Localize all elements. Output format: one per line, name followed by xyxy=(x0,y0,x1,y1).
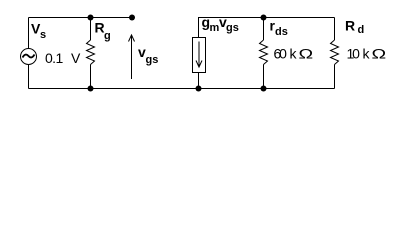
wire rds bottom lead xyxy=(263,65,265,89)
svg-text:Ω: Ω xyxy=(299,46,314,62)
wire bottom rail xyxy=(29,88,335,90)
wire Rd top lead xyxy=(334,18,336,41)
wire rds top lead xyxy=(263,18,265,41)
node dot bottom rail / dependent source xyxy=(196,86,202,92)
node dot top rail / Rg xyxy=(88,15,94,21)
voltage source V1 Vs circle xyxy=(21,49,37,65)
svg-text:s: s xyxy=(40,29,46,41)
svg-text:R: R xyxy=(345,18,355,34)
svg-text:g: g xyxy=(104,30,111,42)
wire dependent source top lead and right top rail xyxy=(199,18,335,38)
wire left vertical to source xyxy=(28,18,30,49)
svg-text:k: k xyxy=(290,46,298,62)
node dot bottom rail / Rg xyxy=(88,86,94,92)
svg-text:k: k xyxy=(363,46,371,62)
wire Rd bottom lead xyxy=(334,65,336,89)
arrow vgs voltage xyxy=(129,35,135,79)
svg-text:m: m xyxy=(210,22,220,34)
node dot bottom rail / rds xyxy=(261,86,267,92)
wire Rg bottom lead xyxy=(90,65,92,89)
svg-text:ds: ds xyxy=(275,26,288,38)
node dot open terminal end of top rail xyxy=(129,15,135,21)
resistor Rd xyxy=(331,40,339,65)
wire top rail left xyxy=(29,17,133,19)
svg-text:Ω: Ω xyxy=(372,46,387,62)
wire dependent source bottom lead xyxy=(198,73,200,89)
svg-text:V: V xyxy=(71,50,81,66)
wire Rg top lead xyxy=(90,18,92,41)
svg-text:gs: gs xyxy=(146,54,159,66)
svg-text:gs: gs xyxy=(226,22,239,34)
node dot top rail / rds xyxy=(261,15,267,21)
arrow inside dependent source xyxy=(196,42,202,68)
svg-text:d: d xyxy=(358,24,365,36)
voltage source sine symbol xyxy=(23,55,35,58)
svg-text:0.1: 0.1 xyxy=(45,50,63,66)
resistor R1 Rg xyxy=(87,40,95,65)
dependent current source G1 gm*vgs box xyxy=(193,38,206,73)
wire source bottom to bottom rail xyxy=(28,65,30,89)
resistor rds xyxy=(260,40,268,65)
